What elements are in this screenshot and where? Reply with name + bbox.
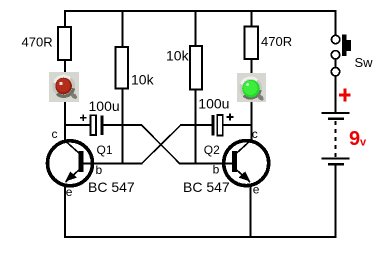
svg-text:BC 547: BC 547 — [88, 179, 135, 195]
transistor Q1 base bar — [79, 151, 84, 172]
wire C1 right lead — [103, 124, 142, 126]
resistor R3 10k — [190, 46, 202, 90]
wire Q2 base lead — [179, 163, 233, 165]
transistor Q1 BC547 circle — [48, 141, 93, 186]
capacitor C2 negative plate — [211, 115, 214, 136]
svg-text:470R: 470R — [22, 35, 53, 50]
battery dashed middle link — [335, 121, 337, 158]
resistor R2 10k — [116, 47, 128, 89]
wire battery negative to bottom rail — [335, 165, 337, 238]
capacitor C1 plus sign — [80, 117, 87, 119]
svg-text:470R: 470R — [261, 34, 292, 49]
wire C1 left lead — [64, 124, 91, 126]
svg-text:e: e — [253, 183, 260, 197]
transistor Q1 collector diagonal — [65, 141, 80, 155]
svg-text:9: 9 — [349, 128, 360, 150]
transistor Q2 base bar — [232, 151, 237, 172]
wire Q1 base lead — [83, 163, 143, 165]
resistor R1 470R — [58, 27, 71, 60]
capacitor C1 negative plate — [100, 115, 103, 135]
LED D1 red — [49, 72, 79, 102]
battery plus sign red — [339, 93, 351, 96]
wire C2 right lead — [223, 124, 252, 126]
svg-text:v: v — [360, 137, 367, 149]
svg-text:Q1: Q1 — [97, 143, 113, 157]
wire C2 left lead — [180, 124, 212, 126]
wire bottom negative rail — [64, 236, 337, 238]
wire switch middle link — [335, 59, 337, 69]
switch Sw push button actuator — [342, 34, 346, 55]
svg-text:BC 547: BC 547 — [183, 179, 230, 195]
transistor Q2 BC547 circle — [224, 141, 269, 186]
svg-text:b: b — [213, 163, 220, 177]
capacitor C2 plus sign — [226, 116, 233, 118]
switch Sw contact circle 1 — [331, 35, 339, 43]
transistor Q2 emitter diagonal — [236, 169, 250, 182]
svg-text:e: e — [66, 185, 73, 199]
svg-text:10k: 10k — [166, 48, 190, 64]
wire Q2 emitter to ground rail — [249, 184, 251, 238]
battery B1 second short plate — [328, 163, 344, 166]
wire cross-couple diagonal Q1 base to C2 — [142, 125, 181, 163]
svg-text:Q2: Q2 — [204, 143, 220, 157]
transistor Q1 emitter diagonal — [66, 169, 81, 182]
LED D2 green — [237, 73, 266, 102]
svg-text:c: c — [52, 127, 58, 141]
battery B1 positive long plate — [322, 112, 350, 114]
switch Sw contact circle 3 — [331, 68, 339, 76]
capacitor C2 positive plate — [217, 115, 223, 136]
wire branch 1 vertical (470R / red LED / Q1 collector) — [64, 10, 66, 140]
wire Q1 emitter to ground rail — [64, 185, 66, 238]
wire cross-couple diagonal C1 to Q2 base — [142, 125, 180, 163]
switch Sw contact circle 2 — [331, 51, 339, 59]
capacitor C1 100u positive plate — [91, 115, 97, 135]
battery B1 short plate — [328, 118, 344, 121]
transistor Q2 collector diagonal — [236, 141, 251, 155]
wire branch 3 vertical (10k to Q2 base) — [194, 10, 196, 164]
svg-text:100u: 100u — [89, 98, 120, 114]
resistor R4 470R — [244, 27, 258, 59]
wire branch 2 vertical (10k to Q1 base) — [122, 10, 124, 164]
transistor Q1 emitter arrow — [65, 171, 77, 181]
wire top positive rail — [64, 10, 337, 12]
svg-text:100u: 100u — [198, 96, 229, 112]
wire right rail to switch — [335, 10, 337, 36]
svg-text:c: c — [252, 127, 258, 141]
battery B1 second long plate — [322, 157, 350, 159]
svg-text:b: b — [96, 163, 103, 177]
wire switch to battery — [335, 76, 337, 113]
transistor Q2 emitter arrow — [238, 171, 250, 181]
wire branch 4 vertical (470R / green LED / Q2 collector) — [250, 10, 252, 140]
svg-text:10k: 10k — [131, 72, 155, 88]
svg-text:Sw: Sw — [355, 55, 374, 70]
